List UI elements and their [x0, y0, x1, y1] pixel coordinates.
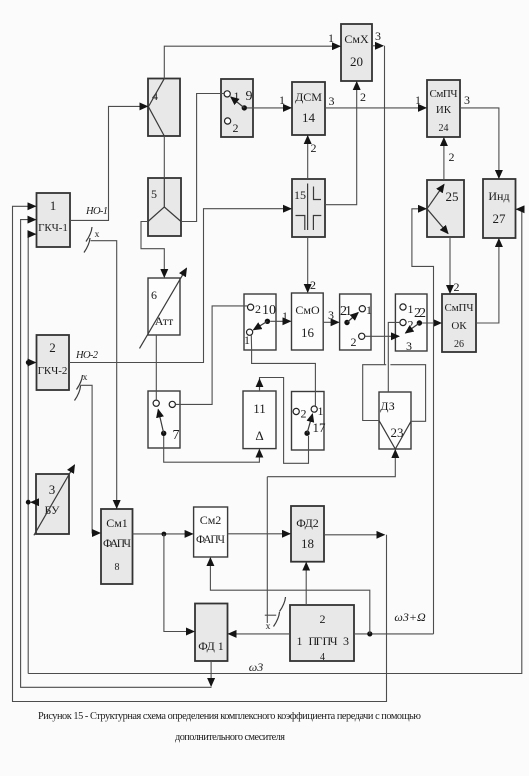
- switch 21 arm: [347, 313, 358, 323]
- svg-text:14: 14: [302, 110, 316, 125]
- break strokes at GKCh-2 x-output: [75, 375, 83, 401]
- wire block 4 bottom to block 5 top: [163, 136, 165, 178]
- block 11 delta box: [243, 391, 276, 449]
- switch 9 contact 1: [224, 89, 239, 103]
- wire FD1 output down arrow: [210, 661, 212, 686]
- wire FD2 output arrow to feedback bus: [324, 534, 384, 536]
- wire omega3 line along bottom and up to Ind right input: [28, 209, 522, 673]
- svg-text:4: 4: [320, 652, 325, 663]
- block 19 PG PCh generator box: [290, 605, 354, 663]
- switch 17 contact 1: [311, 404, 323, 418]
- svg-text:х: х: [95, 230, 100, 240]
- svg-text:ДЗ: ДЗ: [380, 399, 395, 413]
- svg-text:ФД 1: ФД 1: [198, 639, 224, 653]
- block 2 GKCh-2 box: [37, 335, 70, 390]
- svg-text:Атт: Атт: [155, 314, 174, 328]
- block 23 DZ coupler box: [379, 392, 411, 449]
- switch 17 box: [292, 392, 327, 451]
- svg-text:ГКЧ-2: ГКЧ-2: [38, 365, 68, 377]
- svg-text:3: 3: [329, 94, 335, 108]
- wire block 4 top output to SmX input 1: [164, 46, 340, 78]
- svg-text:1: 1: [328, 31, 334, 45]
- svg-text:3: 3: [464, 93, 470, 107]
- svg-text:2: 2: [49, 340, 56, 355]
- wire Sm2 output to FD2 input: [228, 533, 290, 535]
- svg-text:СмО: СмО: [295, 303, 320, 317]
- switch 10 arm: [254, 321, 268, 330]
- switch 10 contact 2: [248, 302, 262, 316]
- wire block 15 right output up to SmX input 2: [325, 82, 357, 205]
- wire PGPCh output 2 up to FD2 bottom input: [305, 563, 307, 605]
- svg-text:24: 24: [439, 123, 449, 134]
- junction dot at GKCh-2 input: [26, 360, 31, 365]
- svg-text:21: 21: [340, 304, 352, 319]
- block 6 Att variability diagonal arrow: [140, 268, 187, 348]
- junction dot on PGPCh output: [367, 631, 372, 636]
- block 20 SmX mixer box: [341, 24, 372, 81]
- svg-text:16: 16: [301, 325, 315, 340]
- wire SmPCh OK output to Ind bottom input: [476, 239, 499, 323]
- block 26 SmPCh OK mixer box: [442, 294, 476, 352]
- junction dot at BU output: [26, 500, 31, 505]
- wire FD1 feedback left and up to GKCh-1 input 2: [21, 220, 212, 688]
- wire Sm1 output to Sm2 input: [133, 533, 193, 535]
- wire PGPCh output 3 up to block 25 input: [412, 209, 434, 634]
- switch 9 arm: [231, 97, 245, 108]
- svg-text:ПГ ПЧ: ПГ ПЧ: [309, 634, 338, 648]
- svg-text:2: 2: [320, 612, 326, 626]
- wire SmX output 3 arrow: [372, 45, 383, 47]
- wire Att output down to switch 7 left contact: [155, 335, 157, 400]
- svg-text:См1: См1: [106, 516, 128, 530]
- block 5 divider diagonals: [148, 178, 181, 222]
- block 8 Sm1 FAPCh mixer box: [101, 509, 133, 584]
- wire omega3 bus vertical on left: [27, 234, 29, 673]
- switch 7 common dot: [161, 431, 166, 436]
- svg-text:1: 1: [279, 93, 285, 107]
- svg-text:2: 2: [360, 90, 366, 104]
- switch 9 common dot: [242, 105, 247, 110]
- switch 21 box: [340, 294, 371, 350]
- block 5 power divider box: [148, 178, 181, 236]
- wire switch 9 output to DSM input 1: [247, 107, 291, 109]
- svg-text:ФД2: ФД2: [296, 516, 319, 530]
- svg-text:1: 1: [50, 198, 57, 213]
- switch 22 contact 1: [400, 302, 414, 316]
- wire BU output into bus: [31, 501, 36, 503]
- wire NO-1 output of GKCh-1 to block 4 input: [70, 106, 147, 220]
- svg-text:9: 9: [246, 89, 253, 104]
- svg-text:ω3+Ω: ω3+Ω: [394, 610, 426, 624]
- svg-text:Рисунок 15 - Структурная схема: Рисунок 15 - Структурная схема определен…: [38, 711, 421, 722]
- svg-text:2: 2: [454, 280, 460, 294]
- wire DSM output 3 to SmPCh IK input 1: [325, 107, 426, 109]
- svg-text:ω3: ω3: [249, 660, 263, 674]
- wire switch 21 contact 2 to switch 22 contact 3: [365, 335, 399, 337]
- svg-text:НО-2: НО-2: [75, 350, 99, 361]
- switch 17 common dot: [304, 431, 309, 436]
- wire reference bus up from junction to Sm2 bottom input: [210, 558, 369, 634]
- svg-text:26: 26: [454, 339, 464, 350]
- block 16 SmO mixer box: [292, 293, 324, 350]
- svg-text:1: 1: [415, 93, 421, 107]
- switch 7 arm: [158, 410, 164, 434]
- wire loop from SmX bus into DZ 23 left and right edges: [363, 365, 426, 422]
- svg-text:11: 11: [253, 401, 266, 416]
- svg-text:2: 2: [233, 121, 239, 135]
- wire GKCh-2 x-output down to Sm1 left input: [80, 385, 100, 533]
- svg-text:СмПЧ: СмПЧ: [445, 302, 474, 314]
- switch 7 box: [148, 391, 180, 448]
- wire switch 22 common output to SmPCh OK input: [422, 322, 441, 324]
- switch 10 common dot: [265, 319, 270, 324]
- switch 7 contact right: [169, 401, 175, 407]
- wire block 11 top output to switch 17 common: [260, 378, 309, 464]
- block 23 DZ V diagonals: [379, 421, 411, 450]
- svg-text:22: 22: [414, 306, 426, 321]
- switch 17 contact 2: [293, 407, 306, 421]
- block 13 FD1 phase detector box: [195, 604, 228, 662]
- switch 9 box: [221, 79, 253, 137]
- svg-text:дополнительного смесителя: дополнительного смесителя: [175, 732, 285, 743]
- svg-text:1: 1: [297, 634, 303, 648]
- wire GKCh-1 x-output down to Sm1 top input: [91, 241, 117, 508]
- svg-text:ОК: ОК: [451, 320, 467, 332]
- block 12 Sm2 FAPCh mixer box: [194, 507, 228, 557]
- svg-text:5: 5: [151, 187, 157, 201]
- wire switch 7 common down and right up into block 11 bottom: [164, 436, 260, 462]
- wire switch 22 contact 2 stub down to DZ 23 top: [388, 322, 400, 392]
- svg-text:БУ: БУ: [45, 503, 60, 517]
- block 25 divider diagonals with arrows: [427, 185, 444, 209]
- wire block 25 top output up to SmPCh IK input 2: [443, 138, 445, 180]
- svg-text:3: 3: [406, 339, 412, 353]
- switch 7 contact left: [153, 400, 159, 406]
- wire NO-2 output of GKCh-2 to block 15 input: [69, 209, 291, 363]
- svg-text:ГКЧ-1: ГКЧ-1: [38, 222, 68, 234]
- svg-text:6: 6: [151, 288, 157, 302]
- wire FD2 feedback down left and up to GKCh-1 input 1: [13, 206, 387, 701]
- switch 21 contact 2: [351, 333, 365, 349]
- svg-text:1: 1: [244, 333, 250, 347]
- svg-text:7: 7: [173, 428, 180, 443]
- junction dot Sm1 output: [162, 532, 167, 537]
- block 4 divider diagonals: [148, 79, 164, 136]
- svg-text:10: 10: [262, 303, 276, 318]
- wire DZ 23 bottom input from broken line: [267, 450, 395, 477]
- switch 22 arm: [406, 323, 420, 333]
- block 27 Ind indicator box: [483, 179, 516, 238]
- block 3 BU variability diagonal arrow: [34, 465, 75, 535]
- wire switch 7 right contact to switch 10 contact 2: [176, 306, 248, 405]
- svg-text:3: 3: [49, 482, 56, 497]
- svg-text:15: 15: [294, 188, 306, 202]
- svg-text:20: 20: [350, 54, 363, 69]
- break strokes near PGPCh: [274, 597, 286, 627]
- svg-text:27: 27: [493, 211, 507, 226]
- svg-text:ДСМ: ДСМ: [295, 90, 322, 104]
- svg-text:1: 1: [408, 302, 414, 316]
- wire block 25 bottom output down to SmPCh OK input 2: [449, 237, 451, 293]
- svg-text:2: 2: [311, 141, 317, 155]
- switch 22 box: [395, 294, 427, 351]
- svg-text:НО-1: НО-1: [85, 206, 108, 217]
- block 18 FD2 phase detector box: [291, 506, 324, 562]
- arrow on block 11 output wire: [259, 379, 261, 390]
- block 25 power divider box: [427, 180, 464, 237]
- switch 10 contact 1: [244, 329, 253, 347]
- switch 21 common dot: [344, 320, 349, 325]
- svg-text:3: 3: [343, 634, 349, 648]
- wire SmO output 3 to switch 21: [323, 321, 338, 323]
- switch 22 contact 2: [400, 318, 414, 332]
- svg-text:17: 17: [313, 420, 327, 435]
- wire SmPCh IK output 3 to Ind top input: [460, 108, 499, 178]
- break tick: [265, 614, 276, 616]
- wire block 5 left output wrap to Att input: [141, 222, 164, 278]
- break strokes at GKCh-1 x-output: [84, 227, 92, 253]
- svg-text:2: 2: [449, 150, 455, 164]
- svg-text:25: 25: [446, 189, 459, 204]
- svg-text:Δ: Δ: [255, 428, 263, 443]
- switch 17 arm: [307, 414, 312, 433]
- block 3 BU control unit box: [36, 474, 69, 534]
- block 6 Att attenuator box: [148, 278, 180, 335]
- switch 10 box: [244, 294, 276, 350]
- svg-text:18: 18: [301, 536, 314, 551]
- wire PGPCh output 1 to FD1 right input: [229, 633, 291, 635]
- wire block 5 right output up to switch 9 contact 1: [181, 94, 224, 222]
- svg-text:х: х: [266, 622, 271, 632]
- wire block 15 bottom output down to SmO input 2: [307, 237, 309, 292]
- svg-text:3: 3: [328, 308, 334, 322]
- wire switch 10 common output to SmO input: [270, 320, 290, 322]
- wire SmX output vertical bus down: [384, 46, 386, 365]
- svg-text:1: 1: [366, 303, 372, 317]
- block 15 waveform glyph: [296, 184, 322, 231]
- svg-text:2: 2: [351, 335, 357, 349]
- wire switch 10 contact 1 down and right to switch 17 contact 1: [251, 335, 315, 406]
- wire broken vertical with x-break below DZ feed: [266, 477, 268, 623]
- svg-text:ФАПЧ: ФАПЧ: [103, 538, 132, 550]
- block 24 SmPCh IK mixer box: [427, 80, 460, 137]
- svg-text:ИК: ИК: [436, 104, 452, 116]
- block 1 GKCh-1 box: [37, 193, 71, 247]
- svg-text:2: 2: [255, 302, 261, 316]
- svg-text:8: 8: [115, 562, 120, 573]
- wire block 15 top output up to DSM input 2: [307, 136, 309, 179]
- wire bus arrow into GKCh-1 input 3: [28, 233, 35, 235]
- block 15 sweep generator box: [292, 179, 325, 237]
- block 14 DSM mixer box: [292, 82, 325, 135]
- wire bus arrow into GKCh-2 input: [28, 362, 35, 364]
- svg-text:См2: См2: [200, 513, 222, 527]
- svg-text:1: 1: [318, 404, 324, 418]
- svg-text:1: 1: [282, 309, 288, 323]
- wire junction branch down to FD1 left input: [164, 534, 194, 632]
- block 4 power divider box: [148, 79, 180, 137]
- svg-text:х: х: [83, 373, 88, 383]
- switch 21 contact 1: [359, 303, 372, 317]
- svg-text:2: 2: [310, 278, 316, 292]
- svg-text:ФАПЧ: ФАПЧ: [196, 534, 226, 546]
- wire PGPCh output 3 horizontal: [354, 633, 434, 635]
- svg-text:СмХ: СмХ: [344, 32, 369, 46]
- svg-text:3: 3: [375, 29, 381, 43]
- svg-text:СмПЧ: СмПЧ: [430, 88, 458, 100]
- svg-text:Инд: Инд: [488, 189, 509, 203]
- switch 9 contact 2: [225, 118, 239, 135]
- switch 22 common dot: [417, 320, 422, 325]
- svg-text:2: 2: [301, 407, 307, 421]
